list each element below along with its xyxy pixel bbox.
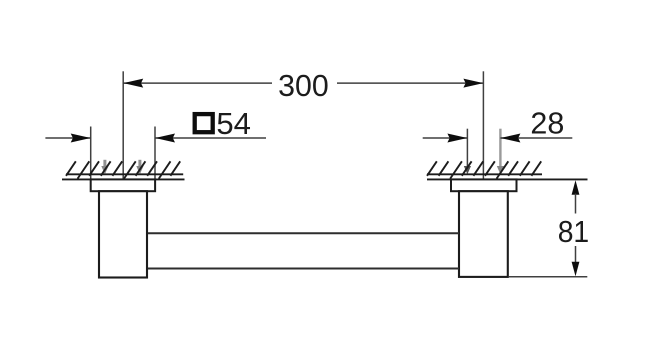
node dim300 right arrowhead bbox=[463, 79, 483, 88]
svg-text:54: 54 bbox=[216, 107, 251, 141]
node square symbol for 54 bbox=[195, 114, 213, 132]
node right screw arrow b bbox=[497, 166, 504, 174]
wire dim54 right leader line bbox=[155, 137, 266, 139]
wire dim28 left extension line bbox=[466, 129, 468, 167]
wire dim28 right leader line bbox=[500, 137, 572, 139]
wire dim81 upper stem bbox=[575, 194, 577, 214]
node dim28 right arrowhead bbox=[500, 134, 520, 143]
svg-text:28: 28 bbox=[530, 107, 564, 141]
wire dim300 left extension line bbox=[122, 71, 124, 191]
wire dim28 right extension line bbox=[499, 129, 501, 167]
node dim54 left arrowhead bbox=[71, 134, 91, 143]
node dim54 right arrowhead bbox=[155, 134, 175, 143]
wire dim54 left tail line bbox=[45, 137, 90, 139]
wall surface line left lower bbox=[62, 178, 185, 180]
node dim81 down arrowhead bbox=[572, 262, 580, 277]
wire dim54 right extension line bbox=[154, 127, 156, 192]
wire dim300 line left segment bbox=[123, 82, 272, 84]
left post bbox=[99, 191, 147, 277]
wire dim81 lower stem bbox=[575, 246, 577, 263]
wall hatching right bbox=[427, 161, 541, 178]
node left screw arrow b bbox=[136, 160, 143, 174]
wall surface line right upper bbox=[427, 173, 542, 175]
right post bbox=[459, 191, 508, 277]
node left screw arrow a bbox=[101, 160, 108, 174]
svg-text:81: 81 bbox=[558, 215, 590, 249]
wall surface line right lower (81 top reference) bbox=[427, 178, 588, 180]
left mounting plate bbox=[91, 179, 155, 191]
wire dim300 right extension line bbox=[482, 71, 484, 191]
node dim300 left arrowhead bbox=[123, 79, 143, 88]
node dim28 left arrowhead bbox=[447, 134, 467, 143]
node right screw arrow a bbox=[464, 166, 471, 174]
node dim81 up arrowhead bbox=[572, 180, 580, 195]
wire dim54 left extension line bbox=[90, 127, 92, 192]
wire dim300 line right segment bbox=[337, 82, 483, 84]
value label 81 bbox=[558, 215, 590, 249]
bar bottom line bbox=[148, 268, 459, 270]
svg-text:300: 300 bbox=[278, 69, 329, 103]
value label 54 bbox=[216, 107, 251, 141]
value label 28 bbox=[530, 107, 564, 141]
wire dim81 bottom reference line bbox=[508, 276, 587, 278]
bar top line bbox=[148, 232, 459, 234]
wall hatching left bbox=[66, 161, 180, 178]
wire dim28 left tail line bbox=[423, 137, 468, 139]
right mounting plate bbox=[451, 179, 517, 191]
wall surface line left upper bbox=[66, 173, 183, 175]
value label 300 bbox=[278, 69, 329, 103]
